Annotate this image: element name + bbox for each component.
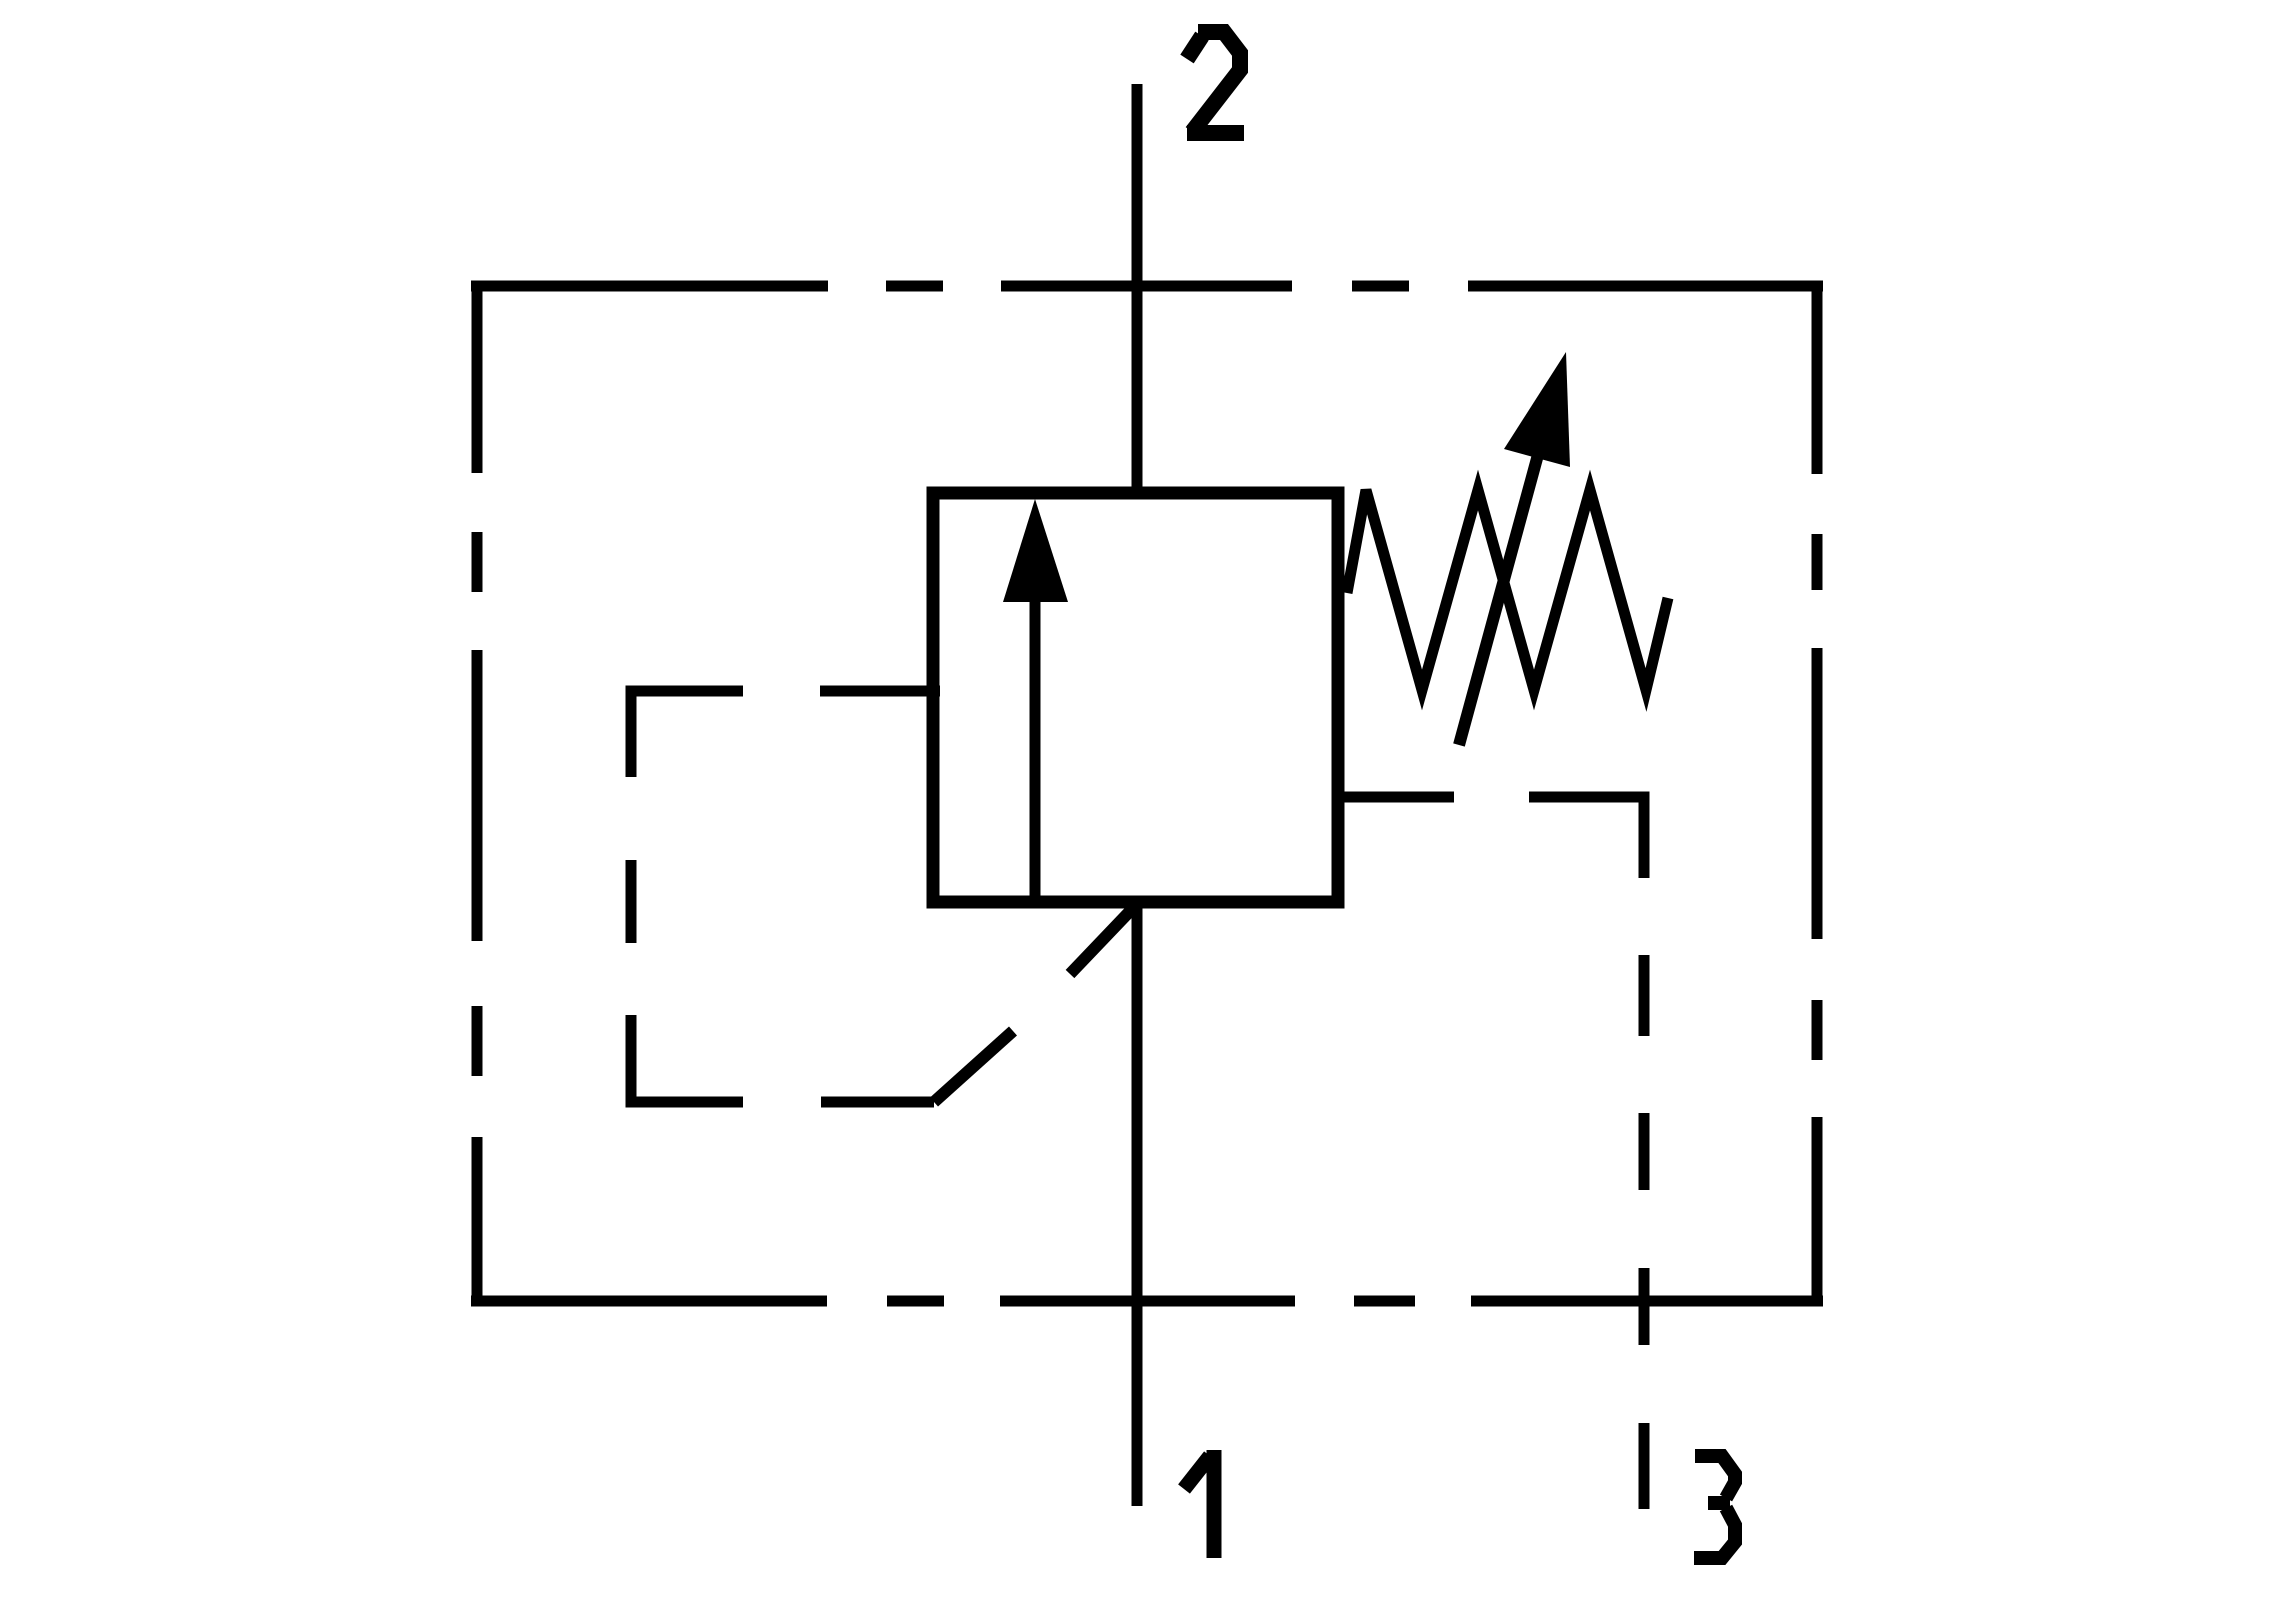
pilot diagonal dash 2 <box>1070 908 1133 974</box>
adjustment arrow head <box>1504 352 1570 467</box>
enclosure boundary left edge (chain line) <box>472 281 483 1306</box>
flow arrow head in valve <box>1003 499 1068 602</box>
drain line dash segments (port 3) <box>1639 955 1650 1509</box>
port 1 line <box>1132 902 1143 1506</box>
label 3 <box>1694 1456 1735 1558</box>
spring <box>1347 490 1668 690</box>
left pilot dashed corner lower <box>631 1015 743 1102</box>
label 2 <box>1187 32 1244 133</box>
left pilot port stub <box>820 686 940 697</box>
enclosure boundary right edge (chain line) <box>1812 281 1823 1306</box>
enclosure boundary top edge (chain line) <box>471 281 1823 292</box>
pilot diagonal dash 1 <box>934 1031 1013 1102</box>
left pilot dashed horizontal segment <box>821 1097 934 1108</box>
label 1 <box>1184 1450 1214 1558</box>
flow arrow shaft in valve <box>1030 598 1041 896</box>
left pilot dashed segment <box>626 860 637 943</box>
adjustment arrow shaft <box>1459 418 1548 745</box>
left pilot dashed corner upper <box>631 691 743 777</box>
right drain dashed corner <box>1529 797 1644 878</box>
right drain port stub <box>1338 792 1454 803</box>
valve body square <box>933 493 1338 902</box>
port 2 line <box>1132 84 1143 493</box>
enclosure boundary bottom edge (chain line) <box>471 1296 1823 1307</box>
